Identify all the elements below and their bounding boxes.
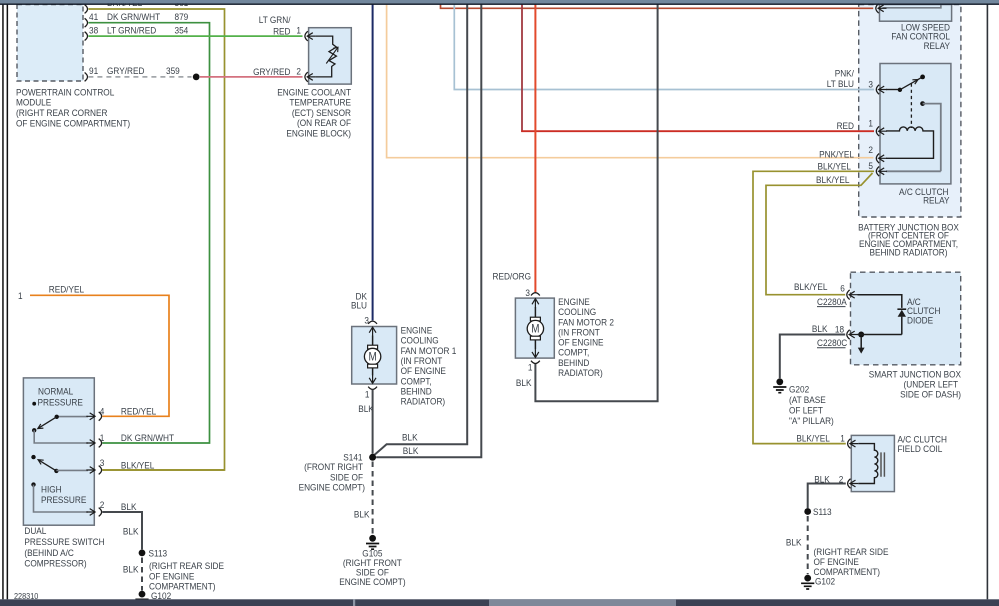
- svg-text:GRY/RED: GRY/RED: [253, 66, 291, 77]
- svg-text:RED: RED: [273, 26, 291, 37]
- splice S113 (right): [804, 508, 811, 515]
- ground G202: [776, 378, 783, 385]
- ground G105: [369, 535, 376, 542]
- svg-text:TEMPERATURE: TEMPERATURE: [289, 97, 351, 108]
- A/C clutch relay box: [880, 64, 951, 184]
- ground G102 (left): [139, 591, 146, 598]
- svg-text:PRESSURE: PRESSURE: [41, 494, 86, 505]
- svg-text:LT GRN/: LT GRN/: [259, 15, 291, 26]
- wire RED feed top to low speed fan relay: [441, 5, 874, 9]
- svg-text:1: 1: [840, 433, 845, 444]
- wire LT GRN/RED 354 from PCM to ECT pin 1: [88, 35, 302, 37]
- svg-text:COOLING: COOLING: [401, 335, 439, 346]
- svg-text:3: 3: [100, 457, 105, 468]
- svg-text:91: 91: [89, 66, 98, 77]
- svg-text:(IN FRONT: (IN FRONT: [558, 327, 600, 338]
- svg-text:2: 2: [868, 144, 873, 155]
- svg-text:PNK/YEL: PNK/YEL: [819, 149, 854, 160]
- svg-text:LT GRN/RED: LT GRN/RED: [107, 25, 157, 36]
- svg-text:5: 5: [868, 160, 873, 171]
- svg-text:38: 38: [89, 25, 98, 36]
- svg-text:LT BLU: LT BLU: [827, 79, 854, 90]
- svg-text:ENGINE COMPT): ENGINE COMPT): [339, 577, 405, 588]
- svg-text:RELAY: RELAY: [924, 40, 950, 51]
- svg-text:C2280C: C2280C: [817, 338, 848, 349]
- smart junction box (dashed): [851, 272, 961, 365]
- svg-text:FIELD COIL: FIELD COIL: [897, 444, 942, 455]
- wire RED feed vertical to A/C clutch relay: [521, 5, 523, 132]
- svg-text:COMPRESSOR): COMPRESSOR): [24, 558, 86, 569]
- wire BLK feed a to S141: [374, 5, 467, 455]
- svg-text:BLK: BLK: [358, 404, 374, 415]
- svg-text:COMPT,: COMPT,: [401, 376, 432, 387]
- splice S113 (left): [139, 550, 146, 557]
- svg-text:(BEHIND A/C: (BEHIND A/C: [24, 548, 74, 559]
- A/C clutch diode D1: [858, 295, 902, 335]
- wire BLK from pin 2 to S113: [102, 512, 142, 549]
- svg-text:(RIGHT REAR CORNER: (RIGHT REAR CORNER: [16, 108, 108, 119]
- field coil L2: [858, 444, 878, 484]
- svg-text:879: 879: [175, 11, 189, 22]
- wire BLK feed b to S141: [376, 5, 481, 458]
- PCM pin 41: [85, 18, 88, 27]
- high pressure switch blade: [31, 455, 35, 459]
- wire BLK/YEL pin3 stub: [102, 469, 224, 471]
- svg-text:1: 1: [528, 362, 533, 373]
- ground G102 (right): [804, 575, 811, 582]
- svg-text:BLK/YEL: BLK/YEL: [818, 161, 851, 172]
- svg-text:41: 41: [89, 11, 98, 22]
- wire BLK dashed S141 to G105: [372, 462, 374, 535]
- svg-text:BLK: BLK: [786, 537, 802, 548]
- right page border: [987, 5, 989, 600]
- svg-text:OF ENGINE COMPARTMENT): OF ENGINE COMPARTMENT): [16, 118, 130, 129]
- svg-text:MODULE: MODULE: [16, 97, 51, 108]
- relay contact to pin 5: [920, 101, 925, 106]
- svg-text:PRESSURE SWITCH: PRESSURE SWITCH: [24, 537, 104, 548]
- pressure switch pin 1: [99, 439, 102, 448]
- low speed fan control relay box: [880, 5, 952, 22]
- PCM pin 38: [85, 32, 88, 41]
- svg-text:(ECT) SENSOR: (ECT) SENSOR: [292, 107, 352, 118]
- wire GRY/RED 359 dashed segment: [88, 76, 191, 78]
- svg-text:BLK/YEL: BLK/YEL: [796, 433, 829, 444]
- splice node on GRY/RED: [193, 74, 200, 81]
- svg-text:2: 2: [296, 66, 301, 77]
- svg-text:DUAL: DUAL: [24, 525, 46, 536]
- wire PNK/LT BLU feed to A/C clutch relay pin 3: [454, 5, 874, 90]
- field coil pin 2: [848, 479, 851, 489]
- svg-text:1: 1: [868, 118, 873, 129]
- wire BRN/YEL from PCM to pressure switch pin 3: [88, 9, 224, 470]
- low speed relay pin: [876, 4, 879, 14]
- svg-text:3: 3: [525, 287, 530, 298]
- svg-text:RED/YEL: RED/YEL: [49, 284, 84, 295]
- wire BLK/YEL relay pin5 to A/C clutch field coil: [753, 171, 874, 443]
- svg-text:S113: S113: [813, 506, 832, 517]
- svg-text:BLK: BLK: [121, 501, 137, 512]
- relay switch blade: [886, 89, 900, 91]
- node at pin 18: [858, 332, 864, 338]
- svg-text:(RIGHT REAR SIDE: (RIGHT REAR SIDE: [149, 561, 224, 572]
- svg-text:COOLING: COOLING: [558, 307, 596, 318]
- thermistor R-ECT inside sensor: [316, 36, 337, 77]
- svg-text:2: 2: [100, 499, 105, 510]
- svg-text:BLK: BLK: [354, 509, 370, 520]
- wire BLK field coil to S113: [808, 484, 846, 509]
- svg-text:G102: G102: [815, 576, 835, 587]
- svg-text:3: 3: [868, 79, 873, 90]
- engine coolant temperature sensor box: [309, 28, 352, 84]
- splice S141: [369, 454, 376, 461]
- wire DK BLU feed to fan motor 1: [372, 5, 374, 321]
- wire BLK/YEL relay pin5 to C2280A: [766, 173, 873, 295]
- high pressure common dot: [31, 482, 35, 486]
- svg-text:RED: RED: [837, 120, 855, 131]
- svg-text:POWERTRAIN CONTROL: POWERTRAIN CONTROL: [16, 87, 114, 98]
- normal pressure switch blade: [57, 416, 88, 418]
- bottom scrollbar: [0, 599, 999, 606]
- ground arrow inside SJB: [860, 338, 862, 349]
- wire BLK C2280C to G202: [780, 335, 845, 379]
- battery junction box (dashed): [859, 5, 961, 218]
- A/C clutch field coil box: [851, 435, 894, 491]
- svg-text:ENGINE COMPT): ENGINE COMPT): [299, 482, 365, 493]
- svg-text:BLK/YEL: BLK/YEL: [121, 460, 154, 471]
- pressure switch pin 3: [99, 466, 102, 475]
- wire RED feed horizontal to A/C clutch relay pin 1: [521, 130, 874, 132]
- svg-text:COMPT,: COMPT,: [558, 347, 589, 358]
- svg-text:6: 6: [840, 283, 845, 294]
- svg-text:RED/YEL: RED/YEL: [121, 406, 156, 417]
- wire DK GRN/WHT 879 from PCM to pressure switch pin 1: [88, 23, 209, 443]
- pressure switch pin 4: [99, 412, 102, 421]
- top toolbar edge: [0, 0, 999, 3]
- svg-text:BLK: BLK: [123, 564, 139, 575]
- normal pressure contact dot: [32, 402, 36, 406]
- svg-text:C2280A: C2280A: [817, 296, 847, 307]
- PCM pin (cut row): [85, 5, 88, 14]
- wire BLK dashed S113 to G102 (right): [807, 516, 809, 574]
- field coil pin 1: [848, 439, 851, 449]
- svg-text:PRESSURE: PRESSURE: [37, 397, 82, 408]
- pressure switch pin 2: [99, 508, 102, 517]
- svg-text:1: 1: [18, 290, 23, 301]
- svg-text:1: 1: [365, 389, 370, 400]
- svg-text:SIDE OF DASH): SIDE OF DASH): [900, 389, 961, 400]
- svg-text:BEHIND RADIATOR): BEHIND RADIATOR): [870, 247, 948, 258]
- wire BLK fan2 ground loop: [535, 5, 657, 402]
- svg-text:18: 18: [835, 324, 844, 335]
- svg-text:ENGINE COOLANT: ENGINE COOLANT: [277, 87, 351, 98]
- svg-text:1: 1: [296, 25, 301, 36]
- dual pressure switch box: [23, 378, 94, 525]
- svg-text:M: M: [368, 351, 376, 364]
- svg-text:RADIATOR): RADIATOR): [558, 367, 603, 378]
- motor M2 symbol: [534, 307, 536, 349]
- svg-text:M: M: [531, 323, 539, 336]
- svg-text:G202: G202: [789, 384, 809, 395]
- wire BLK dashed S113 to G102: [141, 558, 143, 591]
- svg-text:3: 3: [364, 315, 369, 326]
- connector C2280C pin 18: [847, 330, 850, 340]
- svg-text:OF LEFT: OF LEFT: [789, 405, 823, 416]
- svg-text:RELAY: RELAY: [923, 195, 949, 206]
- low speed relay partial internals: [883, 4, 941, 7]
- svg-text:(AT BASE: (AT BASE: [789, 394, 826, 405]
- svg-text:HIGH: HIGH: [41, 484, 62, 495]
- wire RED/ORG feed to fan motor 2: [534, 5, 536, 293]
- svg-text:DIODE: DIODE: [907, 315, 933, 326]
- svg-text:"A" PILLAR): "A" PILLAR): [789, 415, 834, 426]
- connector C2280A pin 6: [847, 290, 850, 300]
- svg-text:BEHIND: BEHIND: [558, 357, 590, 368]
- PCM pin 91: [85, 73, 88, 82]
- svg-text:BLK: BLK: [123, 526, 139, 537]
- svg-text:359: 359: [166, 66, 180, 77]
- svg-text:DK GRN/WHT: DK GRN/WHT: [107, 11, 161, 22]
- svg-text:S113: S113: [148, 548, 167, 559]
- wire BLK fan1 to S141: [372, 390, 374, 454]
- motor M1 symbol: [372, 336, 374, 376]
- svg-text:BLK: BLK: [403, 445, 419, 456]
- svg-text:RED/ORG: RED/ORG: [493, 271, 532, 282]
- high pressure common lead: [34, 485, 89, 512]
- engine cooling fan motor 1 box: [352, 327, 397, 385]
- svg-text:BLK: BLK: [516, 377, 532, 388]
- svg-text:BLU: BLU: [351, 300, 367, 311]
- powertrain control module box (PCM): [17, 5, 83, 82]
- svg-text:BLK: BLK: [402, 432, 418, 443]
- svg-text:(FRONT RIGHT: (FRONT RIGHT: [304, 462, 363, 473]
- svg-text:RADIATOR): RADIATOR): [401, 396, 446, 407]
- svg-text:(ON REAR OF: (ON REAR OF: [297, 118, 352, 129]
- svg-text:BLK/YEL: BLK/YEL: [816, 174, 849, 185]
- svg-text:BLK: BLK: [812, 324, 828, 335]
- svg-text:4: 4: [100, 406, 105, 417]
- wire RED/YEL from terminal 1 to pressure switch pin 4: [30, 295, 169, 416]
- svg-text:(IN FRONT: (IN FRONT: [401, 355, 443, 366]
- svg-text:1: 1: [100, 432, 105, 443]
- svg-text:FAN MOTOR 1: FAN MOTOR 1: [401, 345, 457, 356]
- fan motor 1 pin 1: [368, 387, 377, 390]
- left page border: [2, 5, 4, 600]
- engine cooling fan motor 2 box: [515, 298, 554, 358]
- svg-text:ENGINE BLOCK): ENGINE BLOCK): [286, 128, 351, 139]
- relay mechanical link (dashed): [910, 84, 912, 129]
- svg-text:354: 354: [175, 25, 189, 36]
- svg-text:DK GRN/WHT: DK GRN/WHT: [121, 432, 175, 443]
- svg-text:GRY/RED: GRY/RED: [107, 66, 145, 77]
- relay coil L1: [886, 127, 934, 158]
- fan motor 2 pin 1: [531, 361, 540, 364]
- svg-text:BLK/YEL: BLK/YEL: [794, 282, 827, 293]
- svg-text:PNK/: PNK/: [835, 68, 855, 79]
- wire PNK/YEL feed to A/C clutch relay pin 2: [387, 5, 874, 158]
- svg-text:NORMAL: NORMAL: [38, 386, 73, 397]
- wire GRY/RED to ECT pin 2: [200, 76, 303, 78]
